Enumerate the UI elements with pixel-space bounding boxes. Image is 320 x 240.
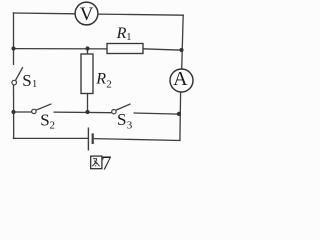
svg-text:1: 1 (126, 32, 131, 43)
caption figure 7 (drawn CJK glyph + digit) (91, 153, 112, 175)
svg-text:S: S (22, 71, 31, 90)
switch S1 (12, 67, 23, 85)
wire left vertical lower (S1 to bottom corner) (13, 85, 15, 139)
ammeter A (170, 68, 193, 92)
label S3 (117, 110, 133, 132)
junction node left-row3 (11, 110, 15, 114)
wire row3 left (node to S2) (14, 111, 32, 113)
switch S3 (112, 104, 131, 114)
voltmeter V (75, 2, 98, 25)
wire R2 top stub (87, 49, 89, 54)
svg-text:2: 2 (106, 78, 112, 90)
label S1 (22, 71, 37, 90)
wire right vertical upper (corner to ammeter) (182, 15, 184, 70)
svg-text:R: R (116, 25, 127, 42)
svg-text:A: A (173, 68, 188, 90)
wire R2 bottom stub (87, 94, 89, 113)
wire top-right from voltmeter to right corner (98, 14, 184, 15)
wire bottom left (corner to battery) (13, 137, 89, 139)
svg-text:V: V (80, 4, 94, 25)
wire middle row (node to R1) (14, 48, 108, 50)
wire right vertical lower (ammeter to bottom corner) (179, 92, 182, 141)
junction node R2 top (85, 46, 89, 50)
switch S2 (32, 104, 52, 114)
label S2 (40, 110, 55, 131)
svg-text:R: R (95, 70, 106, 87)
wire R1 to right vertical (143, 49, 182, 50)
svg-text:S: S (117, 110, 126, 129)
resistor R1 (107, 44, 143, 54)
junction node right-middle (179, 48, 183, 52)
junction node R2 bottom (85, 110, 89, 114)
svg-text:2: 2 (50, 120, 56, 132)
wire bottom right (battery to right corner) (94, 139, 181, 141)
svg-text:7: 7 (101, 153, 111, 175)
wire row3 middle (S2 to S3) (54, 111, 112, 114)
svg-text:3: 3 (127, 120, 133, 132)
junction node left-middle (11, 46, 15, 50)
wire left vertical upper (corner to S1) (13, 12, 15, 65)
resistor R2 (81, 54, 93, 94)
label R1 (116, 25, 132, 43)
svg-text:S: S (40, 110, 49, 129)
battery cell (88, 128, 92, 151)
svg-text:1: 1 (32, 79, 37, 90)
label R2 (95, 70, 111, 90)
wire row3 right (S3 to right vertical) (134, 113, 180, 114)
junction node right-row3 (177, 112, 181, 116)
wire top-left horizontal to voltmeter (13, 12, 75, 15)
